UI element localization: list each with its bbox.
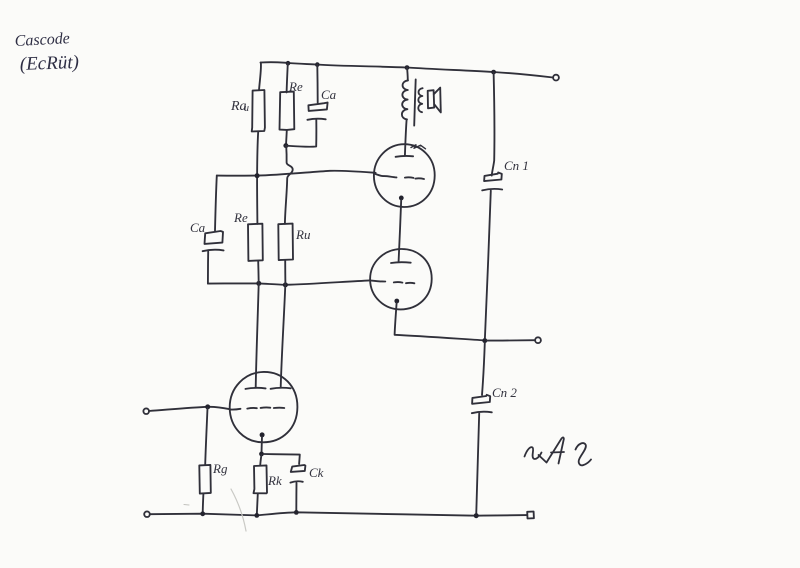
node junction cathode Rk Ck (259, 452, 264, 457)
wire junction to mid terminal (487, 339, 535, 341)
node junction lower rail at Ru mid (283, 282, 288, 287)
svg-text:Cascode: Cascode (14, 30, 70, 50)
resistor Ru mid (278, 224, 293, 261)
svg-text:Re: Re (288, 79, 303, 94)
terminal top right (553, 75, 559, 81)
wire Rau bottom down through mid-rail junction (257, 132, 258, 224)
signature (525, 437, 592, 465)
svg-text:u: u (244, 103, 249, 114)
tube V1 envelope (374, 144, 435, 207)
node junction top rail at transformer (405, 65, 410, 70)
resistor Re mid (248, 224, 263, 261)
label Cn1 (504, 158, 529, 173)
node junction rail at Cn2 (474, 513, 479, 518)
tube V3 left anode bar (246, 388, 266, 389)
transformer T1 core (414, 79, 416, 125)
node junction rail at Ck (294, 510, 299, 515)
svg-text:Rg: Rg (212, 461, 228, 476)
wire mid rail (217, 171, 376, 176)
wire Ca bottom plate to node below Re (286, 120, 316, 147)
svg-text:Ck: Ck (309, 465, 324, 480)
capacitor Cn2 (472, 395, 492, 413)
capacitor Cn1 (482, 173, 502, 191)
wire Rk bottom to rail (257, 493, 258, 515)
svg-text:Rk: Rk (267, 473, 282, 488)
tube V2 grid wire and dashes (370, 280, 385, 281)
wire V1 cathode down to V2 anode (399, 200, 402, 261)
wire lower rail (208, 280, 370, 284)
label Rau (230, 99, 249, 114)
node junction rail at Rg (200, 511, 205, 516)
svg-text:Ca: Ca (321, 87, 337, 102)
wire top rail down to Re upper (287, 63, 288, 92)
tube V3 envelope (230, 372, 298, 442)
transformer T1 primary wire from rail (406, 68, 409, 81)
node junction mid rail at Re (255, 173, 260, 178)
tube V1 overlap scribble (411, 145, 426, 149)
tube V2 cathode dot (394, 299, 399, 304)
pencil arc faint (231, 489, 246, 531)
wire Re bottom to node (285, 130, 288, 145)
tube V1 anode bar (396, 155, 414, 158)
wire input to grid junction and tube (149, 407, 230, 411)
tube V1 grid wire and dashes (374, 173, 397, 177)
tube V1 cathode dot (399, 196, 404, 201)
resistor Rau upper (252, 90, 265, 132)
wire T1 primary bottom to V1 anode (405, 120, 407, 156)
tube V2 anode bar (391, 261, 411, 264)
node junction lower rail at Re mid (256, 281, 261, 286)
wire Cn2 bottom to bottom rail (476, 413, 479, 515)
label Ck (309, 465, 324, 480)
node junction top rail at Cn1 (491, 70, 496, 75)
resistor Re upper (280, 92, 295, 130)
wire junction down to Cn2 (482, 343, 485, 395)
capacitor Ck (290, 465, 305, 483)
wire mid rail corner down to Ca mid (215, 176, 217, 231)
wire junction Re down to V3 left anode (256, 284, 259, 388)
label Ru mid (295, 227, 311, 242)
node below Re upper (283, 143, 288, 148)
wire Ck bottom to rail (295, 483, 297, 512)
svg-text:Cn 2: Cn 2 (492, 385, 517, 400)
wire Ru mid bottom to junction (284, 260, 286, 285)
svg-text:Ru: Ru (295, 227, 311, 242)
wire rail corner down to Rau (259, 63, 261, 91)
terminal bottom right square (527, 512, 534, 519)
wire top rail down to Ca upper (316, 65, 318, 103)
tube V3 right anode bar (271, 388, 291, 389)
label Rg (212, 461, 228, 476)
speaker LS (428, 88, 441, 113)
node junction rail at Rk (254, 513, 259, 518)
svg-text:Re: Re (233, 210, 248, 225)
transformer T1 secondary coil (418, 88, 422, 112)
capacitor Ca upper (307, 103, 327, 120)
node junction right column mid (482, 338, 487, 343)
label Ca upper (321, 87, 337, 102)
wire Ca mid bottom to lower rail corner (207, 251, 209, 283)
wire node down with hop over mid rail (285, 146, 293, 224)
terminal mid right (535, 337, 541, 343)
wire V3 cathode down to node (261, 437, 264, 454)
label Cn2 (492, 385, 517, 400)
title text Cascode (14, 30, 79, 75)
terminal input left (143, 408, 149, 414)
wire node down to Rk (260, 455, 261, 466)
tube V2 envelope (370, 249, 432, 309)
label Ca mid (190, 220, 206, 235)
wire junction down to Rg (205, 408, 207, 465)
wire junction Ru down to V3 right anode (281, 285, 286, 387)
transformer T1 primary coil (402, 80, 408, 119)
svg-text:Ca: Ca (190, 220, 206, 235)
label Re upper (288, 79, 303, 94)
wire cathode node right to Ck (264, 454, 300, 464)
label Re mid (233, 210, 248, 225)
node junction input at Rg (205, 404, 210, 409)
svg-text:Cn 1: Cn 1 (504, 158, 529, 173)
resistor Rg (199, 465, 211, 494)
node junction top rail at Ca (315, 62, 320, 67)
wire Cn1 bottom down to junction (485, 191, 491, 339)
terminal bottom left (144, 511, 150, 517)
resistor Rk (254, 465, 268, 493)
svg-text:(EcRüt): (EcRüt) (19, 52, 79, 75)
node junction top rail at Re (286, 61, 291, 66)
tube V3 grid dashes (230, 408, 241, 411)
wire Re mid bottom to junction (257, 261, 260, 283)
tube V3 cathode dot (260, 432, 265, 437)
wire bottom rail (150, 512, 527, 515)
capacitor Ca mid (203, 231, 224, 251)
wire top supply rail (261, 62, 554, 77)
wire right branch Cn1 top (492, 72, 495, 175)
wire Rg bottom to rail (202, 494, 205, 514)
wire V2 cathode down and right to junction (395, 303, 485, 341)
label Rk (267, 473, 282, 488)
